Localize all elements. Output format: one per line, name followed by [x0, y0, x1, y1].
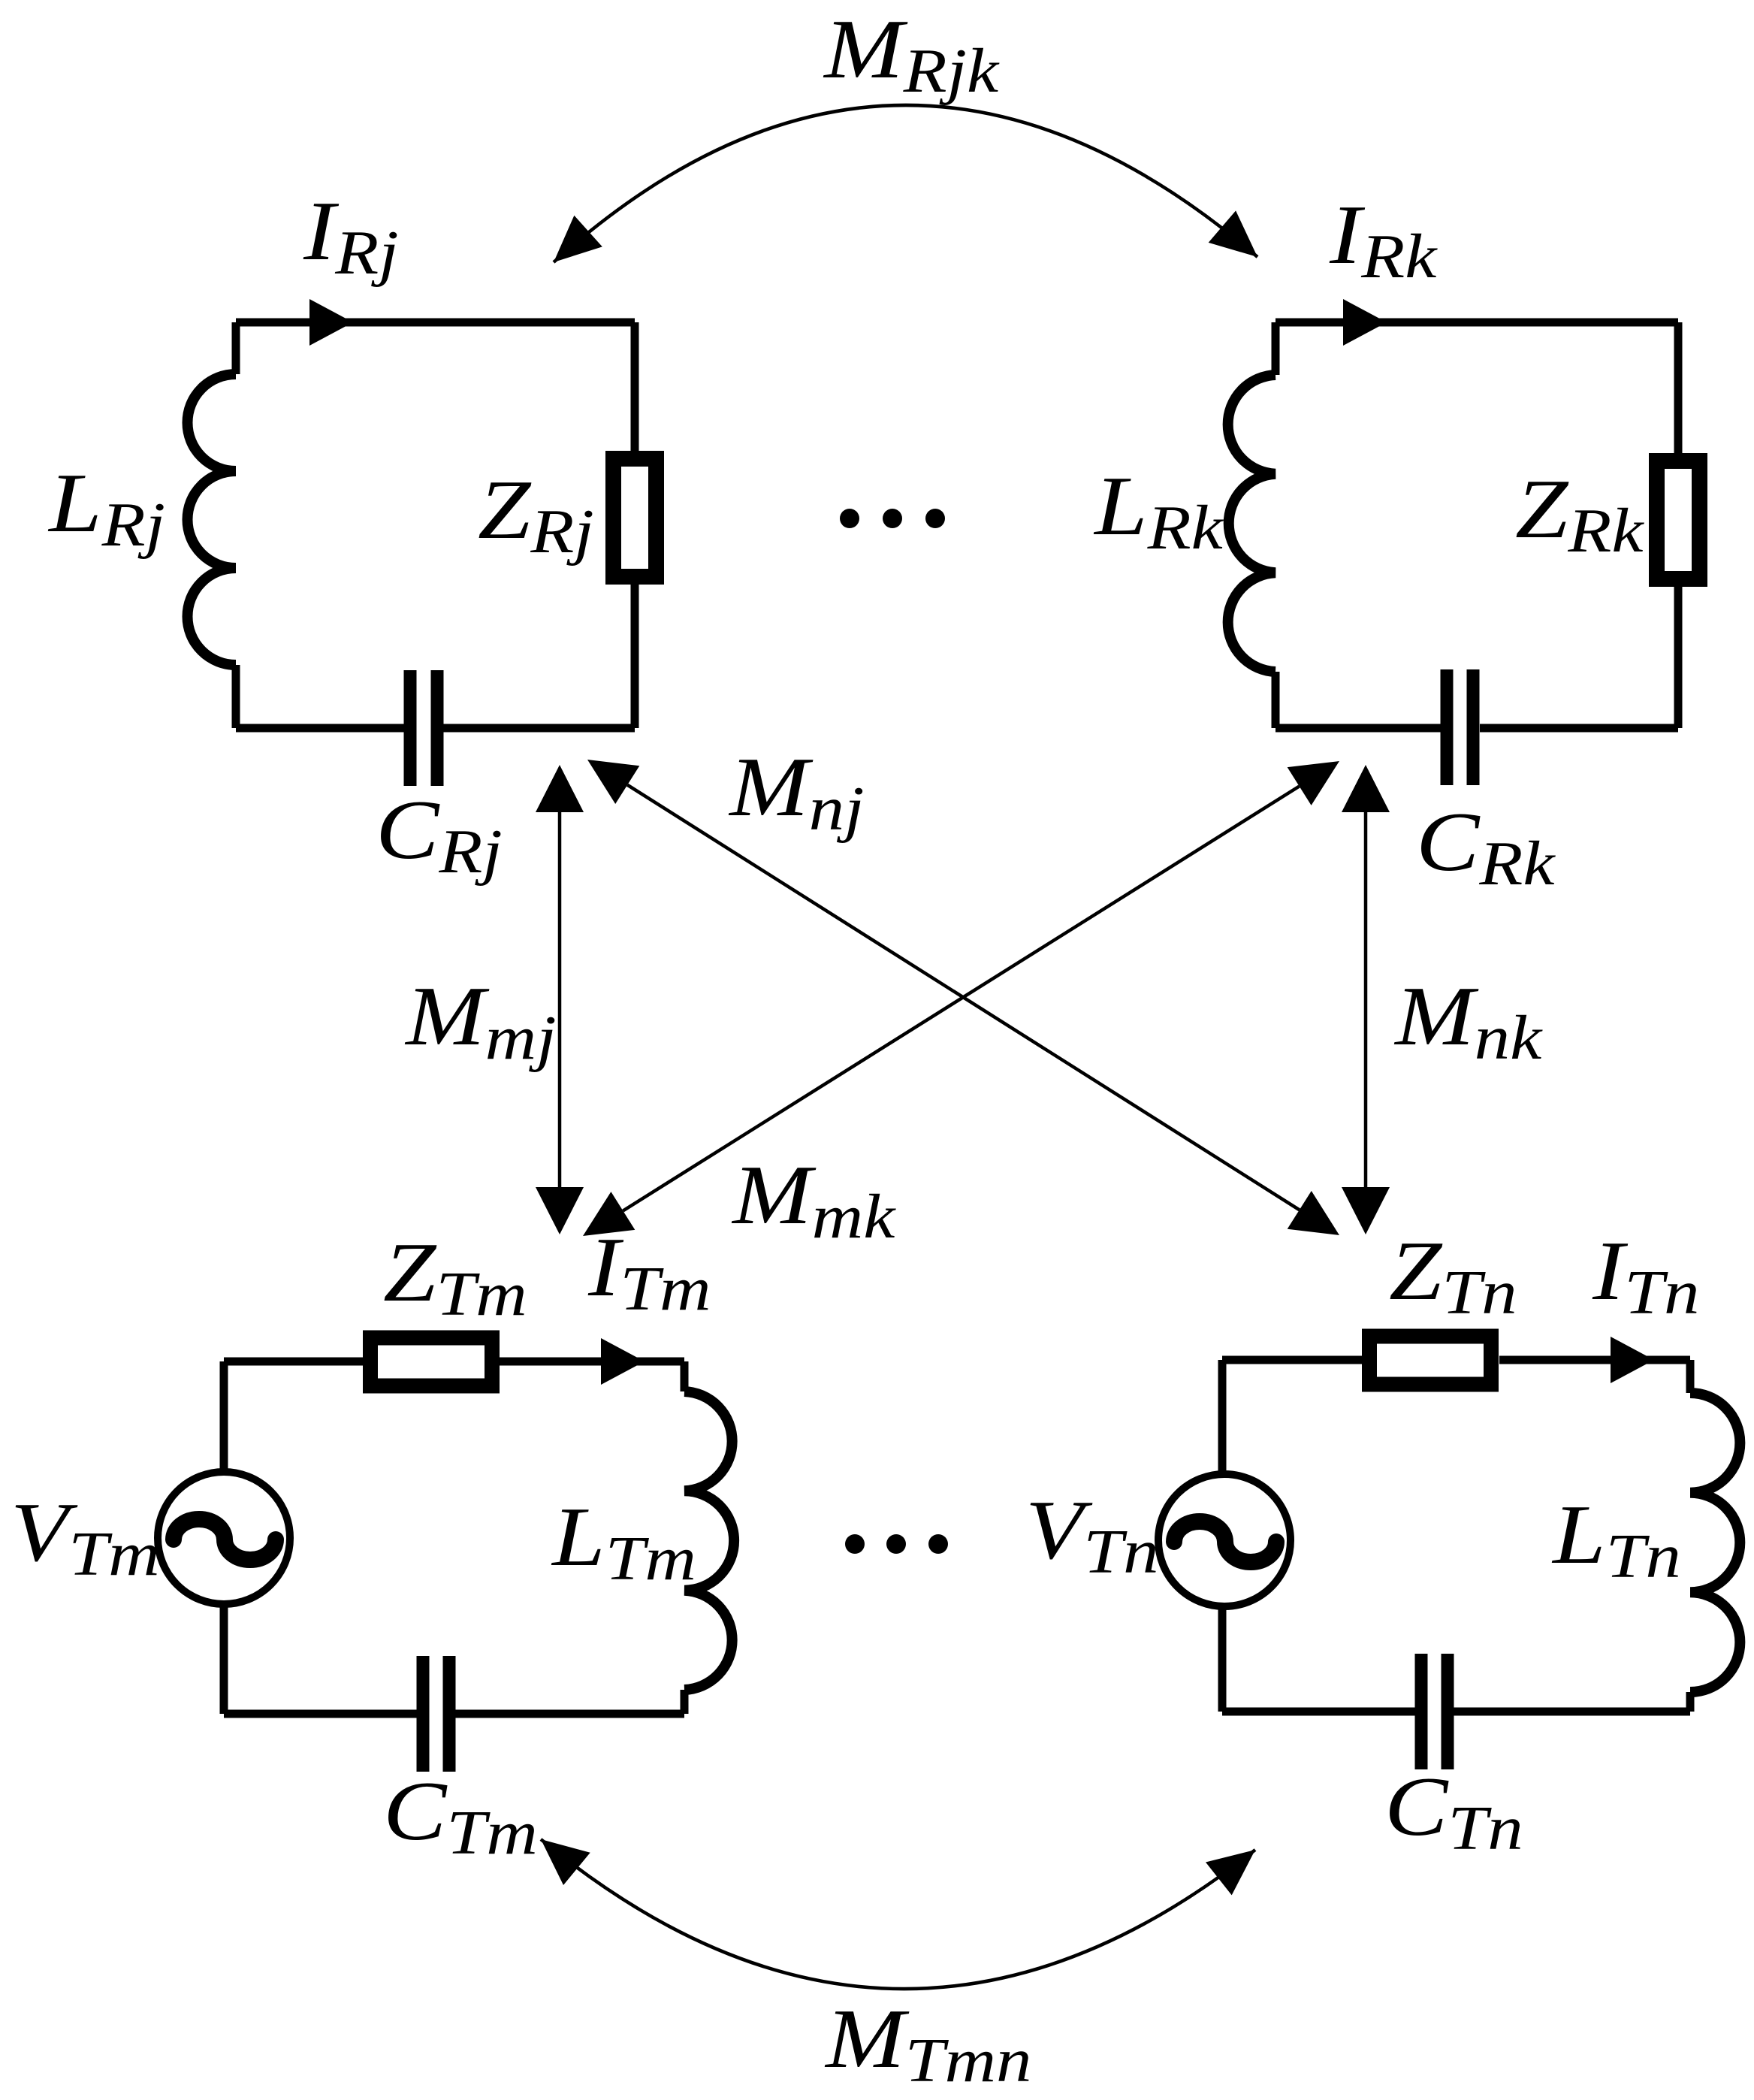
svg-text:CTm: CTm [383, 1765, 538, 1868]
svg-text:ITm: ITm [587, 1221, 711, 1324]
svg-text:ZTm: ZTm [383, 1226, 527, 1329]
svg-text:LTm: LTm [551, 1491, 696, 1594]
svg-text:MRjk: MRjk [823, 3, 1000, 106]
svg-text:CTn: CTn [1384, 1760, 1523, 1863]
svg-text:CRj: CRj [376, 784, 503, 887]
svg-text:CRk: CRk [1416, 796, 1556, 899]
svg-text:ITn: ITn [1592, 1225, 1699, 1328]
svg-text:IRk: IRk [1329, 189, 1439, 292]
svg-text:LRj: LRj [47, 457, 165, 560]
svg-text:VTm: VTm [11, 1486, 160, 1589]
svg-text:MTmn: MTmn [824, 1993, 1031, 2095]
svg-text:LRk: LRk [1093, 460, 1224, 563]
svg-text:IRj: IRj [303, 185, 399, 288]
svg-text:ZTn: ZTn [1389, 1225, 1517, 1328]
svg-text:VTn: VTn [1025, 1484, 1159, 1587]
svg-text:Mnj: Mnj [728, 741, 864, 844]
svg-text:ZRj: ZRj [478, 464, 594, 567]
svg-text:ZRk: ZRk [1515, 463, 1645, 566]
svg-text:LTn: LTn [1551, 1488, 1681, 1591]
svg-text:Mmk: Mmk [731, 1149, 897, 1252]
svg-text:Mnk: Mnk [1393, 970, 1543, 1073]
svg-text:Mmj: Mmj [404, 970, 556, 1073]
